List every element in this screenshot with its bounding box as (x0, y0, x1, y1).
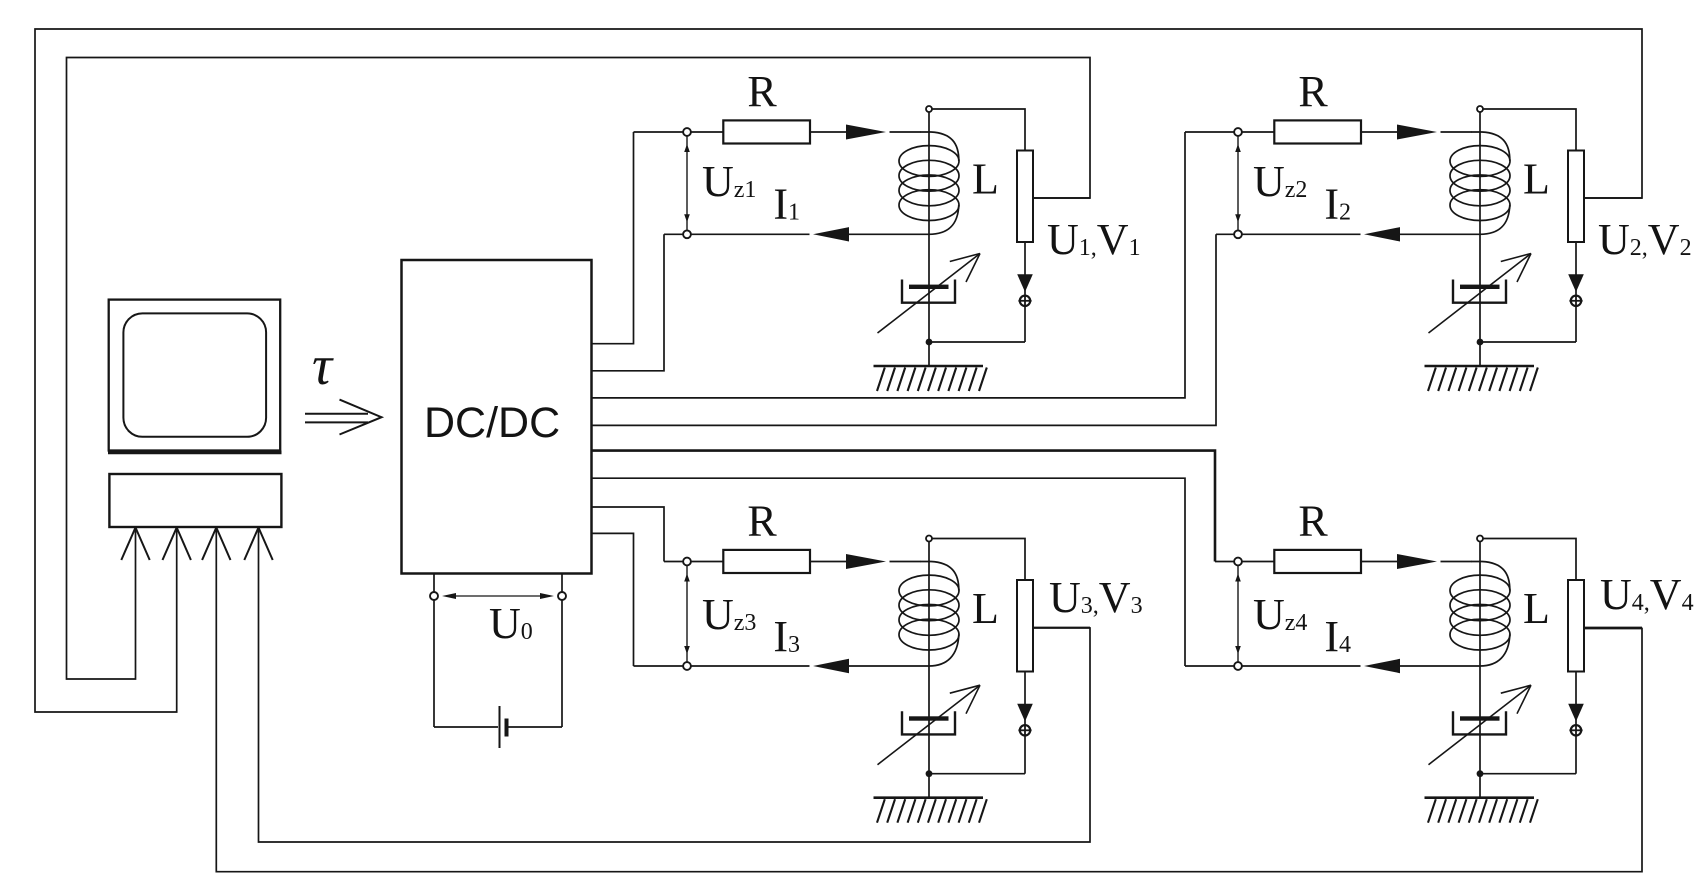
inductor L rings (circuit 3) (899, 575, 959, 650)
node U0 right (558, 592, 566, 600)
wire: stub to Uz3 top node (664, 561, 687, 563)
node coil top (circuit 1) (926, 106, 932, 112)
svg-text:I4: I4 (1324, 612, 1351, 661)
movable core cup symbol (circuit 2) (1453, 280, 1506, 303)
svg-text:I2: I2 (1324, 179, 1351, 228)
node coil top (circuit 2) (1477, 106, 1483, 112)
node Uz3 bottom (683, 662, 691, 670)
junction ground node (circuit 2) (1477, 339, 1484, 346)
wire: DC/DC output 2 to circuit 1 bottom (592, 234, 664, 370)
measuring line Uz1 with arrows (circuit 1) (686, 136, 688, 230)
wire: DC/DC output 5 to circuit 4 top (592, 451, 1215, 562)
adjustment arrow (circuit 1) (878, 254, 981, 334)
current flow arrowhead after R (circuit 1) (846, 125, 886, 140)
wire: return lead I2 (circuit 2) (1238, 233, 1361, 235)
wire: core axis through coil (circuit 1) (928, 112, 930, 342)
output arrowhead below sensor (circuit 3) (1017, 704, 1033, 722)
svg-text:U2,V2: U2,V2 (1598, 215, 1692, 264)
svg-text:R: R (747, 67, 777, 116)
wire: coil-top node to sensor top (circuit 1) (932, 109, 1025, 151)
adjustment arrow (circuit 4) (1429, 685, 1532, 765)
junction ground node (circuit 3) (926, 770, 933, 777)
sensor element U3,V3 (circuit 3) (1017, 580, 1033, 672)
circled-plus output marker (circuit 3) (1020, 725, 1030, 735)
wire: R to coil (circuit 2) (1361, 131, 1398, 133)
node Uz1 bottom (683, 230, 691, 238)
ground (circuit 1) (874, 366, 987, 391)
svg-text:Uz1: Uz1 (702, 157, 756, 206)
wire: R feed (circuit 4) (1238, 561, 1277, 563)
node coil top (circuit 4) (1477, 536, 1483, 542)
svg-text:Uz2: Uz2 (1253, 157, 1307, 206)
wire: R feed (circuit 3) (687, 561, 726, 563)
computer monitor (109, 300, 281, 451)
movable core bar (circuit 1) (909, 285, 949, 289)
movable core cup symbol (circuit 4) (1453, 711, 1506, 734)
wire: DC/DC output 4 to circuit 2 bottom (592, 234, 1216, 425)
wire: core axis through coil (circuit 3) (928, 542, 930, 774)
node Uz2 bottom (1234, 230, 1242, 238)
current arrowhead I4 pointing left (circuit 4) (1364, 659, 1400, 673)
node Uz3 top (683, 558, 691, 566)
svg-text:U1,V1: U1,V1 (1047, 215, 1141, 264)
wire: feedback loop from sensor U2,V2 to computer (outer top loop) (35, 29, 1642, 712)
double-line arrow from computer to DC/DC (305, 413, 368, 415)
svg-text:R: R (1298, 67, 1328, 116)
inductor L rings (circuit 1) (899, 146, 959, 221)
sensor element U4,V4 (circuit 4) (1568, 580, 1584, 672)
node coil top (circuit 3) (926, 536, 932, 542)
DC/DC converter U1 (402, 260, 592, 574)
current arrowhead I2 pointing left (circuit 2) (1364, 227, 1400, 241)
junction ground node (circuit 4) (1477, 770, 1484, 777)
keyboard input arrowhead 4 (244, 528, 258, 561)
inductor L coil exit arc (circuit 4) (1480, 635, 1510, 667)
wire: battery bottom right (508, 726, 562, 728)
resistor R (circuit 1) (723, 120, 810, 143)
wire: ground stem (circuit 2) (1479, 342, 1481, 366)
svg-text:U3,V3: U3,V3 (1049, 573, 1143, 622)
wire: R to coil (circuit 3) (810, 561, 847, 563)
wire: DC/DC right supply lead (561, 574, 563, 728)
wire: DC/DC output 7 to circuit 3 top (592, 507, 664, 562)
wire: sensor bottom lead (circuit 1) (1024, 242, 1026, 342)
svg-text:Uz3: Uz3 (702, 590, 756, 639)
adjustment arrow (circuit 2) (1429, 254, 1532, 334)
keyboard input arrowhead 3 (202, 528, 216, 561)
wire: sensor bottom lead (circuit 2) (1575, 242, 1577, 342)
measuring line Uz3 with arrows (circuit 3) (686, 566, 688, 663)
movable core cup symbol (circuit 3) (902, 711, 955, 734)
sensor element U1,V1 (circuit 1) (1017, 151, 1033, 243)
keyboard / interface unit (109, 474, 281, 527)
svg-text:L: L (1523, 584, 1550, 633)
resistor R (circuit 4) (1274, 550, 1361, 573)
svg-text:DC/DC: DC/DC (424, 399, 560, 447)
ground (circuit 3) (874, 798, 987, 823)
U0 measuring arrow (446, 595, 550, 597)
measuring line Uz2 with arrows (circuit 2) (1237, 136, 1239, 230)
inductor L coil entry arc (circuit 3) (920, 562, 959, 591)
wire: DC/DC left supply lead (433, 574, 435, 728)
keyboard input arrowhead 2 (163, 528, 177, 561)
wire: sensor right output (circuit 1) (1033, 197, 1090, 199)
junction ground node (circuit 1) (926, 339, 933, 346)
wire: DC/DC output 8 to circuit 3 bottom (592, 533, 634, 666)
wire: DC/DC output 1 to circuit 1 top (592, 132, 634, 344)
movable core bar (circuit 4) (1460, 716, 1500, 720)
wire: ground stem (circuit 3) (928, 774, 930, 798)
battery U0 short plate (505, 719, 509, 737)
wire: bottom corner to ground node (circuit 1) (929, 341, 1025, 343)
inductor L coil exit arc (circuit 3) (929, 635, 959, 667)
inductor L coil entry arc (circuit 2) (1471, 132, 1510, 161)
output arrowhead below sensor (circuit 4) (1568, 704, 1584, 722)
wire: stub to Uz3 bottom node (634, 665, 688, 667)
wire: coil-top node to sensor top (circuit 3) (932, 539, 1025, 581)
monitor screen (123, 313, 266, 436)
circled-plus output marker (circuit 4) (1571, 725, 1581, 735)
wire: core axis through coil (circuit 4) (1479, 542, 1481, 774)
resistor R (circuit 3) (723, 550, 810, 573)
current flow arrowhead after R (circuit 4) (1397, 554, 1437, 569)
inductor L rings (circuit 4) (1450, 575, 1510, 650)
wire: sensor bottom lead (circuit 4) (1575, 672, 1577, 774)
node Uz1 top (683, 128, 691, 136)
wire: feedback loop from sensor U1,V1 to computer (inner top loop) (67, 58, 1091, 680)
keyboard input arrowhead 1 (121, 528, 135, 561)
svg-text:R: R (747, 497, 777, 546)
wire: stub to Uz4 bottom node (1185, 665, 1238, 667)
circled-plus output marker (circuit 1) (1020, 296, 1030, 306)
svg-text:I1: I1 (773, 179, 800, 228)
wire: sensor right output (circuit 3) (1033, 627, 1090, 629)
svg-text:L: L (972, 155, 999, 204)
wire: bottom corner to ground node (circuit 4) (1480, 773, 1576, 775)
node U0 left (430, 592, 438, 600)
wire: feedback loop from sensor U4,V4 to computer (outer bottom loop) (216, 528, 1642, 872)
ground (circuit 4) (1425, 798, 1538, 823)
output arrowhead below sensor (circuit 2) (1568, 274, 1584, 292)
adjustment arrow (circuit 3) (878, 685, 981, 765)
svg-text:U4,V4: U4,V4 (1600, 570, 1694, 619)
svg-text:L: L (1523, 155, 1550, 204)
svg-text:L: L (972, 584, 999, 633)
wire: bottom corner to ground node (circuit 2) (1480, 341, 1576, 343)
inductor L coil exit arc (circuit 2) (1480, 205, 1510, 234)
inductor L coil entry arc (circuit 1) (920, 132, 959, 161)
wire: DC/DC output 6 to circuit 4 bottom (592, 478, 1185, 666)
wire: sensor right output (circuit 2) (1584, 197, 1642, 199)
wire: coil-top node to sensor top (circuit 2) (1483, 109, 1576, 151)
ground (circuit 2) (1425, 366, 1538, 391)
wire: coil-top node to sensor top (circuit 4) (1483, 539, 1576, 581)
circled-plus output marker (circuit 2) (1571, 296, 1581, 306)
current flow arrowhead after R (circuit 2) (1397, 125, 1437, 140)
inductor L coil entry arc (circuit 4) (1471, 562, 1510, 591)
wire: core axis through coil (circuit 2) (1479, 112, 1481, 342)
wire: R feed (circuit 2) (1238, 131, 1277, 133)
current arrowhead I3 pointing left (circuit 3) (813, 659, 849, 673)
wire: stub to Uz2 top node (1185, 131, 1238, 133)
movable core bar (circuit 3) (909, 716, 949, 720)
wire: ground stem (circuit 1) (928, 342, 930, 366)
wire: sensor bottom lead (circuit 3) (1024, 672, 1026, 774)
node Uz4 top (1234, 558, 1242, 566)
wire: return lead I1 (circuit 1) (687, 233, 810, 235)
resistor R (circuit 2) (1274, 120, 1361, 143)
output arrowhead below sensor (circuit 1) (1017, 274, 1033, 292)
wire: return lead I4 (circuit 4) (1238, 665, 1361, 667)
measuring line Uz4 with arrows (circuit 4) (1237, 566, 1239, 663)
wire: sensor right output (circuit 4) (1584, 627, 1642, 629)
wire: stub to Uz4 top node (1215, 561, 1238, 563)
svg-text:U0: U0 (489, 599, 533, 648)
inductor L rings (circuit 2) (1450, 146, 1510, 221)
wire: feedback loop from sensor U3,V3 to computer (inner bottom loop) (259, 528, 1091, 842)
svg-text:τ: τ (312, 335, 334, 397)
node Uz4 bottom (1234, 662, 1242, 670)
sensor element U2,V2 (circuit 2) (1568, 151, 1584, 243)
battery U0 long plate (499, 706, 501, 748)
svg-text:R: R (1298, 497, 1328, 546)
current arrowhead I1 pointing left (circuit 1) (813, 227, 849, 241)
wire: stub to Uz2 bottom node (1216, 233, 1238, 235)
movable core bar (circuit 2) (1460, 285, 1500, 289)
wire: return lead I3 (circuit 3) (687, 665, 810, 667)
wire: stub to Uz1 bottom node (664, 233, 687, 235)
wire: R to coil (circuit 1) (810, 131, 847, 133)
movable core cup symbol (circuit 1) (902, 280, 955, 303)
inductor L coil exit arc (circuit 1) (929, 205, 959, 234)
wire: ground stem (circuit 4) (1479, 774, 1481, 798)
node Uz2 top (1234, 128, 1242, 136)
wire: DC/DC output 3 to circuit 2 top (592, 132, 1185, 398)
wire: R feed (circuit 1) (687, 131, 726, 133)
current flow arrowhead after R (circuit 3) (846, 554, 886, 569)
wire: R to coil (circuit 4) (1361, 561, 1398, 563)
wire: bottom corner to ground node (circuit 3) (929, 773, 1025, 775)
wire: battery bottom left (434, 726, 498, 728)
svg-text:I3: I3 (773, 612, 800, 661)
wire: stub to Uz1 top node (634, 131, 688, 133)
svg-text:Uz4: Uz4 (1253, 590, 1307, 639)
